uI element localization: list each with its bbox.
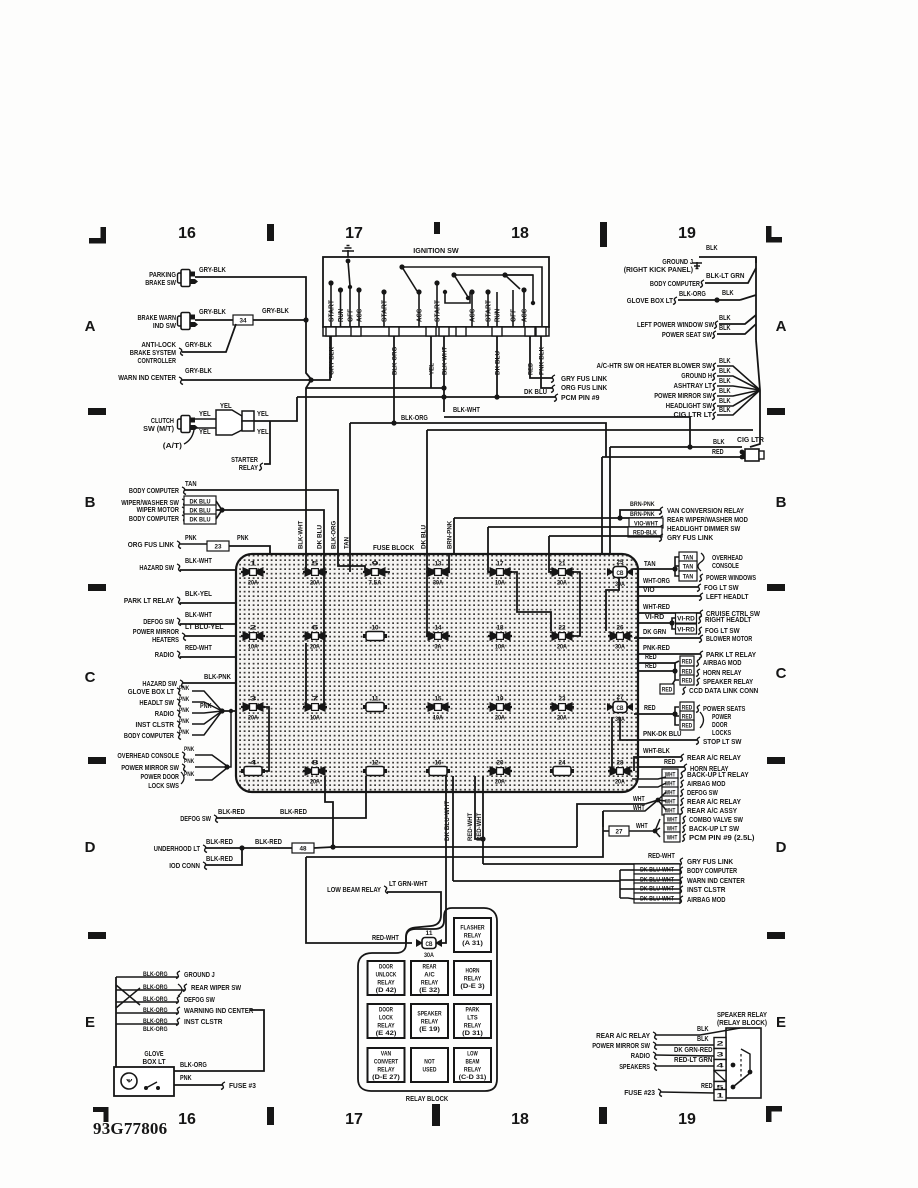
svg-text:VAN: VAN [381, 1051, 392, 1058]
svg-text:20A: 20A [310, 581, 320, 587]
svg-text:HEATERS: HEATERS [152, 637, 179, 644]
relay block outline [358, 908, 497, 1091]
svg-text:STARTER: STARTER [231, 457, 258, 464]
svg-text:PNK: PNK [179, 685, 190, 692]
svg-text:BLOWER MOTOR: BLOWER MOTOR [706, 636, 752, 643]
svg-text:RED: RED [645, 663, 657, 670]
svg-text:STOP LT SW: STOP LT SW [703, 739, 742, 746]
fuse 5 20A [303, 571, 327, 573]
svg-text:RADIO: RADIO [155, 652, 175, 659]
svg-text:C: C [85, 669, 96, 686]
svg-text:BLK-WHT: BLK-WHT [185, 612, 212, 619]
svg-text:YEL: YEL [220, 403, 232, 410]
svg-text:TAN: TAN [343, 537, 350, 549]
svg-text:10A: 10A [495, 645, 505, 651]
svg-text:BRN-PNK: BRN-PNK [446, 520, 453, 549]
wire BLK-WHT ignition drop [443, 336, 445, 412]
inline connector 34 [233, 315, 253, 325]
svg-text:DEFOG SW: DEFOG SW [180, 816, 211, 823]
svg-text:GRY-BLK: GRY-BLK [199, 309, 226, 316]
svg-text:BLK: BLK [713, 439, 725, 446]
svg-text:RED-WHT: RED-WHT [467, 813, 474, 841]
svg-text:GRY-BLK: GRY-BLK [199, 267, 226, 274]
svg-text:BLK: BLK [722, 290, 734, 297]
svg-text:16: 16 [178, 225, 196, 242]
svg-text:34: 34 [240, 318, 247, 325]
svg-text:ASHTRAY LT: ASHTRAY LT [674, 383, 713, 390]
wire long horizontal y857 [306, 811, 603, 857]
svg-text:VIO: VIO [643, 587, 655, 594]
svg-text:BLK-ORG: BLK-ORG [180, 1062, 207, 1069]
fuse 8 20A [303, 770, 327, 772]
svg-text:POWER SEAT SW: POWER SEAT SW [662, 332, 712, 339]
wire DK BLU ignition drop [496, 336, 498, 397]
wire fuse block internal v350 [349, 554, 351, 572]
svg-text:PNK: PNK [179, 729, 190, 736]
svg-text:BODY COMPUTER: BODY COMPUTER [124, 733, 174, 740]
relay box NOT USED slot [411, 1048, 448, 1082]
svg-text:PNK: PNK [200, 703, 212, 710]
svg-text:RELAY: RELAY [377, 1066, 395, 1073]
svg-text:20A: 20A [495, 716, 505, 722]
svg-text:17: 17 [497, 562, 505, 568]
svg-text:4: 4 [717, 1063, 725, 1070]
svg-text:20A: 20A [615, 780, 625, 786]
corner registration mark top-right [766, 226, 772, 242]
svg-text:GLOVE BOX LT: GLOVE BOX LT [128, 689, 175, 696]
svg-text:PNK: PNK [184, 746, 195, 753]
wire VIO-WHT headlight dimmer sw [629, 518, 663, 528]
svg-text:23: 23 [215, 544, 222, 551]
svg-text:E: E [85, 1014, 95, 1031]
svg-text:SW (M/T): SW (M/T) [143, 426, 174, 433]
svg-text:HEADLIGHT DIMMER SW: HEADLIGHT DIMMER SW [667, 526, 741, 533]
svg-text:23: 23 [559, 697, 567, 703]
wire BLK-WHT horizontal y388 [306, 387, 444, 389]
svg-text:YEL: YEL [199, 429, 211, 436]
svg-text:FUSE #23: FUSE #23 [624, 1090, 655, 1097]
svg-text:RED: RED [682, 723, 693, 730]
svg-text:LOCK: LOCK [379, 1015, 393, 1022]
svg-text:A: A [776, 318, 787, 335]
svg-text:RELAY: RELAY [239, 465, 258, 472]
svg-text:HORN RELAY: HORN RELAY [703, 670, 742, 677]
svg-text:B: B [85, 494, 96, 511]
wire fuse 3 to fuse 4 link [262, 707, 269, 771]
wire RED-WHT drops [475, 776, 483, 839]
svg-text:HORN: HORN [466, 968, 480, 975]
svg-text:GLOVE BOX LT: GLOVE BOX LT [627, 298, 674, 305]
svg-text:OVERHEAD: OVERHEAD [712, 555, 743, 562]
svg-text:B: B [776, 494, 787, 511]
svg-text:PNK-DK BLU: PNK-DK BLU [643, 731, 682, 738]
svg-text:20A: 20A [310, 780, 320, 786]
svg-text:FLASHER: FLASHER [460, 925, 485, 932]
svg-text:BLK-RED: BLK-RED [255, 839, 282, 846]
fuse 7 10A [303, 706, 327, 708]
wire DK BLU wiper bus [184, 496, 216, 506]
svg-text:BLK: BLK [719, 358, 731, 365]
grid tick right dash [767, 584, 785, 591]
svg-text:POWER MIRROR SW: POWER MIRROR SW [121, 765, 179, 772]
svg-text:POWER: POWER [712, 714, 731, 721]
svg-text:GRY-BLK: GRY-BLK [185, 342, 212, 349]
fuse 19 20A [488, 706, 512, 708]
svg-text:A: A [85, 318, 96, 335]
ground J symbol [692, 262, 702, 269]
svg-text:DEFOG SW: DEFOG SW [143, 619, 174, 626]
relay box FLASHER RELAY (A 31) [454, 918, 491, 952]
svg-text:LOCK SWS: LOCK SWS [148, 783, 179, 790]
svg-text:BLK-ORG: BLK-ORG [330, 521, 337, 549]
svg-text:BODY COMPUTER: BODY COMPUTER [129, 488, 179, 495]
svg-text:TAN: TAN [644, 561, 656, 568]
svg-text:11: 11 [372, 697, 380, 703]
fuse 1 20A [241, 571, 265, 573]
svg-text:CONTROLLER: CONTROLLER [138, 358, 177, 365]
svg-text:UNDERHOOD LT: UNDERHOOD LT [154, 846, 201, 853]
circuit breaker 11 30A [416, 942, 442, 944]
svg-text:LT GRN-WHT: LT GRN-WHT [389, 881, 428, 888]
speaker relay pin strip [714, 1038, 726, 1049]
svg-text:RADIO: RADIO [631, 1053, 651, 1060]
svg-text:48: 48 [300, 846, 307, 853]
wire DK BLU to PCM pin9 [297, 396, 555, 398]
svg-text:IOD CONN: IOD CONN [169, 863, 200, 870]
grid tick left dash [88, 584, 106, 591]
svg-text:UNLOCK: UNLOCK [376, 972, 397, 979]
svg-text:30A: 30A [615, 582, 625, 588]
svg-text:93G77806: 93G77806 [93, 1119, 167, 1138]
svg-text:20A: 20A [557, 645, 567, 651]
inline connector 48 [292, 843, 314, 853]
svg-text:10A: 10A [248, 645, 258, 651]
svg-text:26: 26 [617, 626, 625, 632]
wire fuse block internal v306 [305, 554, 307, 572]
svg-text:16: 16 [435, 761, 443, 767]
grid tick right dash [767, 932, 785, 939]
svg-text:30A: 30A [424, 953, 434, 959]
svg-text:19: 19 [678, 1111, 696, 1128]
svg-text:BLK-RED: BLK-RED [206, 856, 233, 863]
svg-text:BLK-ORG: BLK-ORG [401, 415, 428, 422]
svg-text:RELAY: RELAY [421, 979, 439, 986]
fuse 13 30A [426, 571, 450, 573]
inline connector 27 and combo valve group [609, 826, 629, 836]
svg-text:ORG FUS LINK: ORG FUS LINK [128, 542, 174, 549]
svg-text:RELAY: RELAY [464, 932, 482, 939]
svg-text:RED-LT GRN: RED-LT GRN [674, 1057, 713, 1064]
svg-text:RED: RED [644, 705, 656, 712]
wire radio to fuse 7 feed [305, 643, 307, 703]
grid tick bottom 3 [599, 1107, 607, 1124]
relay box DOOR LOCK RELAY (E 42) [368, 1004, 405, 1038]
wire DK BLU-WHT group [634, 864, 680, 874]
fuse block outline [236, 554, 638, 792]
wire bus right side vertical [750, 340, 760, 447]
fuse 20 20A [488, 770, 512, 772]
svg-text:RADIO: RADIO [155, 711, 175, 718]
wire REAR WIPER SW brace [178, 984, 182, 996]
svg-text:RED: RED [701, 1083, 713, 1090]
svg-text:LOW: LOW [467, 1051, 477, 1058]
wire fuse 21 link [571, 572, 580, 636]
fuse 21 20A [550, 571, 574, 573]
svg-text:CIG LTR LT: CIG LTR LT [674, 412, 713, 419]
svg-text:21: 21 [559, 562, 567, 568]
svg-text:BODY COMPUTER: BODY COMPUTER [129, 516, 179, 523]
speaker relay internals [731, 1063, 736, 1068]
svg-text:BLK-ORG: BLK-ORG [679, 291, 706, 298]
svg-text:BLK-WHT: BLK-WHT [185, 558, 212, 565]
svg-text:BLK: BLK [719, 368, 731, 375]
svg-text:POWER SEATS: POWER SEATS [703, 706, 746, 713]
corner registration mark bottom-left [93, 1107, 108, 1112]
svg-text:D: D [776, 839, 787, 856]
svg-text:GRY FUS LINK: GRY FUS LINK [561, 376, 607, 383]
svg-text:C: C [776, 665, 787, 682]
svg-text:WHT: WHT [636, 823, 648, 830]
svg-text:RELAY: RELAY [464, 975, 482, 982]
brake warn ind sw component [178, 316, 182, 326]
svg-text:RED-WHT: RED-WHT [185, 645, 212, 652]
svg-text:DK BLU-WHT: DK BLU-WHT [444, 801, 451, 841]
relay box DOOR UNLOCK RELAY (D 42) [368, 961, 405, 995]
svg-text:NOT: NOT [424, 1059, 435, 1066]
wire BLK-ORG ignition drop [393, 336, 395, 423]
svg-text:LT BLU-YEL: LT BLU-YEL [185, 624, 224, 631]
svg-text:WHT-ORG: WHT-ORG [643, 578, 670, 585]
parking brake sw component [178, 273, 182, 283]
svg-text:PNK: PNK [179, 718, 190, 725]
svg-text:CONVERT: CONVERT [374, 1059, 398, 1066]
svg-text:OVERHEAD CONSOLE: OVERHEAD CONSOLE [117, 753, 179, 760]
svg-text:WHT: WHT [633, 796, 645, 803]
wire WHT fan group [662, 769, 678, 779]
svg-text:POWER MIRROR SW: POWER MIRROR SW [654, 393, 712, 400]
wire drop to fuse 25 area [609, 447, 611, 560]
svg-text:20A: 20A [248, 716, 258, 722]
svg-text:REAR A/C RELAY: REAR A/C RELAY [596, 1033, 650, 1040]
svg-text:18: 18 [497, 626, 505, 632]
relay box VAN CONVERT RELAY (D-E 27) [368, 1048, 405, 1082]
grid tick top 3 [600, 222, 607, 247]
svg-text:REAR A/C RELAY: REAR A/C RELAY [687, 799, 741, 806]
svg-text:HAZARD SW: HAZARD SW [139, 565, 174, 572]
svg-text:PNK: PNK [180, 1075, 192, 1082]
svg-text:1: 1 [717, 1093, 725, 1100]
svg-text:BLK-RED: BLK-RED [218, 809, 245, 816]
svg-text:FUSE BLOCK: FUSE BLOCK [373, 543, 415, 552]
svg-text:PARK: PARK [466, 1007, 480, 1014]
svg-text:BLK-RED: BLK-RED [206, 839, 233, 846]
svg-text:INST CLSTR: INST CLSTR [687, 887, 726, 894]
svg-text:DK BLU: DK BLU [189, 517, 210, 524]
svg-text:BLK: BLK [719, 388, 731, 395]
svg-text:A/C: A/C [424, 972, 435, 979]
svg-text:IND SW: IND SW [153, 323, 176, 330]
svg-text:BLK: BLK [719, 378, 731, 385]
relay box SPEAKER RELAY (E 19) [411, 1004, 448, 1038]
svg-text:25: 25 [617, 560, 625, 566]
svg-text:10A: 10A [495, 581, 505, 587]
svg-text:24: 24 [559, 761, 567, 767]
fuse 22 20A [550, 635, 574, 637]
ignition switch box U1 [323, 257, 549, 327]
wire fuse 17 to 18 link [509, 572, 551, 631]
svg-text:PARK LT RELAY: PARK LT RELAY [706, 652, 756, 659]
svg-text:BLK: BLK [719, 325, 731, 332]
relay box HORN RELAY (D-E 3) [454, 961, 491, 995]
svg-text:RIGHT HEADLT: RIGHT HEADLT [705, 617, 752, 624]
svg-text:CONSOLE: CONSOLE [712, 563, 739, 570]
fuse 15 10A [426, 706, 450, 708]
grid tick left dash [88, 408, 106, 415]
svg-text:COMBO VALVE SW: COMBO VALVE SW [689, 817, 743, 824]
svg-text:REAR A/C RELAY: REAR A/C RELAY [687, 755, 741, 762]
svg-text:WHT-BLK: WHT-BLK [643, 748, 670, 755]
svg-text:20A: 20A [248, 581, 258, 587]
svg-text:18: 18 [511, 1111, 529, 1128]
wire GRY-BLK ignition drop [330, 336, 332, 378]
svg-text:POWER WINDOWS: POWER WINDOWS [706, 575, 756, 582]
svg-text:19: 19 [497, 697, 505, 703]
wire long horizontal y847 [333, 846, 577, 848]
svg-text:FOG LT SW: FOG LT SW [704, 585, 739, 592]
svg-text:POWER MIRROR SW: POWER MIRROR SW [592, 1043, 650, 1050]
grid tick top 1 [267, 224, 274, 241]
svg-text:BLK: BLK [697, 1026, 709, 1033]
svg-text:SPEAKER RELAY: SPEAKER RELAY [717, 1012, 767, 1019]
svg-text:PNK: PNK [179, 707, 190, 714]
svg-text:PNK: PNK [185, 535, 197, 542]
grid tick left dash [88, 757, 106, 764]
svg-text:DK GRN: DK GRN [643, 629, 666, 636]
svg-text:(E 19): (E 19) [419, 1026, 440, 1033]
svg-text:RED-WHT: RED-WHT [372, 935, 399, 942]
svg-text:LTS: LTS [467, 1015, 477, 1022]
svg-text:YEL: YEL [257, 411, 269, 418]
svg-text:14: 14 [435, 626, 443, 632]
svg-text:12: 12 [372, 761, 380, 767]
wire fuse 9 to park lt [385, 571, 390, 573]
grid tick bottom 1 [267, 1107, 274, 1125]
svg-text:RELAY: RELAY [377, 1022, 395, 1029]
svg-text:BLK-PNK: BLK-PNK [204, 674, 231, 681]
fuse slot 16 (empty) [429, 767, 447, 776]
svg-text:AIRBAG MOD: AIRBAG MOD [687, 781, 726, 788]
wire fuse8 down to junction [325, 776, 333, 847]
svg-text:TAN: TAN [185, 481, 197, 488]
svg-text:DK BLU: DK BLU [524, 389, 547, 396]
svg-text:USED: USED [423, 1066, 437, 1073]
svg-text:DK BLU: DK BLU [316, 525, 323, 549]
svg-text:RED: RED [682, 678, 693, 685]
svg-text:SPEAKERS: SPEAKERS [619, 1064, 650, 1071]
svg-text:GRY FUS LINK: GRY FUS LINK [687, 859, 733, 866]
wire RED ignition drop [530, 336, 552, 378]
svg-text:TAN: TAN [683, 564, 694, 571]
svg-text:PCM PIN #9: PCM PIN #9 [561, 395, 600, 402]
fuse slot 10 (empty) [366, 632, 384, 641]
svg-text:REAR: REAR [423, 964, 437, 971]
svg-text:RED: RED [712, 449, 724, 456]
clutch sw component [178, 419, 182, 429]
fuse slot 4 (empty) [244, 767, 262, 776]
fuse 18 10A [488, 635, 512, 637]
svg-text:17: 17 [345, 225, 363, 242]
fuse slot 24 (empty) [553, 767, 571, 776]
svg-text:RED: RED [682, 659, 693, 666]
svg-text:AIRBAG MOD: AIRBAG MOD [703, 660, 742, 667]
svg-text:PNK: PNK [184, 758, 195, 765]
svg-text:BLK: BLK [719, 398, 731, 405]
svg-text:POWER DOOR: POWER DOOR [141, 774, 180, 781]
svg-text:HEADLT SW: HEADLT SW [139, 700, 174, 707]
svg-text:BODY COMPUTER: BODY COMPUTER [650, 281, 700, 288]
wire cb27 down to fuse 28 [611, 717, 613, 771]
svg-text:(E 32): (E 32) [419, 987, 440, 994]
svg-text:WIPER/WASHER SW: WIPER/WASHER SW [121, 500, 179, 507]
svg-text:DOOR: DOOR [379, 1007, 393, 1014]
wire PNK convergence up [224, 764, 229, 769]
svg-text:BRAKE SW: BRAKE SW [145, 280, 176, 287]
relay box PARK LTS RELAY (D 31) [454, 1004, 491, 1038]
wire cb25 to fuse 26 link [606, 578, 619, 631]
svg-text:POWER MIRROR: POWER MIRROR [133, 629, 179, 636]
svg-text:HEADLIGHT SW: HEADLIGHT SW [666, 403, 713, 410]
wire PNK-BLK ignition drop [541, 336, 552, 388]
fuse 9 7.5A [363, 571, 387, 573]
svg-text:BLK-ORG: BLK-ORG [143, 1026, 168, 1033]
wire fuse block internal v324 [323, 554, 325, 703]
ignition switch connector strip [323, 327, 549, 336]
svg-text:RELAY: RELAY [464, 1066, 482, 1073]
svg-text:3A: 3A [435, 645, 443, 651]
svg-text:VI-RD: VI-RD [677, 616, 695, 623]
svg-text:WHT: WHT [667, 835, 678, 842]
svg-text:PNK: PNK [179, 696, 190, 703]
svg-text:DK GRN-RED: DK GRN-RED [674, 1047, 713, 1054]
svg-text:INST CLSTR: INST CLSTR [184, 1019, 223, 1026]
svg-text:YEL: YEL [199, 411, 211, 418]
svg-text:GROUND H: GROUND H [681, 373, 712, 380]
svg-text:BRAKE WARN: BRAKE WARN [138, 315, 177, 322]
svg-text:A/C-HTR SW OR HEATER BLOWER SW: A/C-HTR SW OR HEATER BLOWER SW [597, 363, 713, 370]
svg-text:GROUND J: GROUND J [184, 972, 215, 979]
svg-text:19: 19 [678, 225, 696, 242]
grid tick bottom 2 [432, 1104, 440, 1126]
svg-text:RED: RED [645, 654, 657, 661]
svg-text:DEFOG SW: DEFOG SW [687, 790, 718, 797]
relay box REAR A/C RELAY (E 32) [411, 961, 448, 995]
wire DK BLU feed from right bus [427, 429, 753, 431]
svg-text:GRY-BLK: GRY-BLK [185, 368, 212, 375]
svg-text:PARK LT RELAY: PARK LT RELAY [124, 598, 174, 605]
svg-text:LEFT HEADLT: LEFT HEADLT [706, 594, 749, 601]
svg-text:BRN-PNK: BRN-PNK [630, 501, 655, 508]
svg-text:TAN: TAN [683, 574, 694, 581]
svg-text:15: 15 [435, 697, 443, 703]
svg-text:CB: CB [426, 941, 433, 948]
svg-text:BOX LT: BOX LT [142, 1059, 166, 1066]
wire fuse block internal v488 [488, 554, 492, 572]
fuse 28 20A [608, 770, 632, 772]
svg-text:(D 42): (D 42) [376, 987, 397, 994]
wire YEL to starter relay [254, 397, 297, 421]
svg-text:RED: RED [662, 687, 673, 694]
svg-text:LOW BEAM RELAY: LOW BEAM RELAY [327, 887, 381, 894]
